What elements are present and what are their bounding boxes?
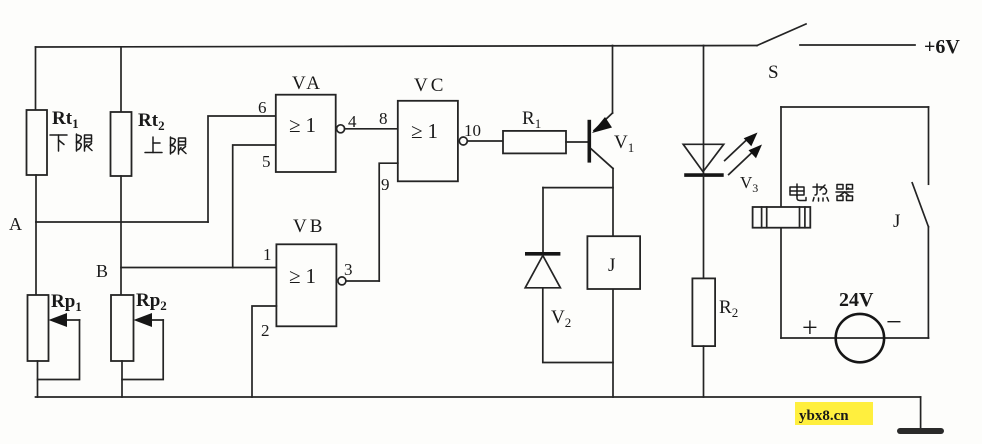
transistor V1 emitter wire from rail xyxy=(612,46,614,114)
resistor R2 xyxy=(692,278,715,346)
wire LED to R2 xyxy=(703,175,705,278)
wire top rail right section xyxy=(800,44,915,46)
heater sub-circuit box top edge xyxy=(781,106,929,108)
svg-text:3: 3 xyxy=(344,260,353,279)
wire R1 to V1 base xyxy=(566,141,587,143)
heater element end lines xyxy=(762,207,805,228)
LED V3 cathode bar xyxy=(684,173,724,177)
diode V2 cathode bar xyxy=(525,252,560,256)
label Rt2 xian2 xyxy=(171,137,187,154)
label Rt1 xia xyxy=(50,135,67,151)
svg-text:ybx8.cn: ybx8.cn xyxy=(799,408,849,424)
wire V2 bottom lead xyxy=(543,288,613,363)
heater sub-circuit left edge xyxy=(780,107,782,338)
wire VB output xyxy=(346,280,379,282)
wire node A to Rp1 xyxy=(35,222,37,295)
svg-text:9: 9 xyxy=(381,175,390,194)
wire Rp1 wiper loop xyxy=(38,320,80,380)
watermark background xyxy=(795,402,873,425)
wire to ground xyxy=(920,397,922,429)
wire V1 collector down to bottom rail xyxy=(612,169,614,398)
gate VC output bubble xyxy=(459,137,467,145)
heater element body xyxy=(753,207,811,228)
wire Rt2 branch from rail xyxy=(120,47,122,112)
label heater (re) xyxy=(813,184,829,201)
wire node B horizontal xyxy=(121,267,276,269)
transistor V1 emitter arrowhead xyxy=(592,117,612,133)
gate VA output bubble xyxy=(337,125,345,133)
svg-text:VC: VC xyxy=(414,75,446,96)
wire left branch upper xyxy=(35,47,37,110)
switch S blade xyxy=(757,24,806,46)
wire VA pin5 from node B xyxy=(233,145,276,268)
LED V3 triangle xyxy=(683,144,724,171)
ground xyxy=(900,428,941,434)
relay coil J xyxy=(587,236,640,289)
resistor Rt1 xyxy=(27,110,48,175)
svg-text:J: J xyxy=(893,211,900,232)
diode V2 triangle xyxy=(525,256,560,288)
label Rt1 xian xyxy=(77,134,93,151)
wire VA to VC xyxy=(345,128,398,130)
svg-text:VB: VB xyxy=(293,216,325,237)
LED V3 light arrow 2 xyxy=(729,145,762,175)
svg-text:S: S xyxy=(768,62,779,83)
svg-text:A: A xyxy=(9,214,22,234)
gate VC xyxy=(398,101,458,182)
label heater (dian) xyxy=(790,184,806,201)
svg-text:Rp2: Rp2 xyxy=(136,290,167,313)
transistor V1 collector diagonal xyxy=(591,149,613,169)
gate VB output bubble xyxy=(338,277,346,285)
resistor Rt2 xyxy=(111,112,132,176)
svg-text:6: 6 xyxy=(258,98,267,117)
svg-text:1: 1 xyxy=(263,245,272,264)
label heater (qi) xyxy=(836,185,853,201)
svg-text:Rt1: Rt1 xyxy=(52,108,79,131)
svg-text:Rp1: Rp1 xyxy=(51,291,82,314)
svg-text:V3: V3 xyxy=(740,173,758,195)
wire V2 branch top xyxy=(543,187,613,189)
wire Rp1 to bottom rail xyxy=(37,361,39,397)
wire Rp2 wiper loop xyxy=(122,320,163,380)
wire VA pin6 from node A xyxy=(208,116,276,222)
wire VB pin2 from bottom rail xyxy=(252,306,276,397)
potentiometer Rp1 xyxy=(28,295,49,361)
gate VB xyxy=(276,244,336,326)
wire VC pin9 from VB output xyxy=(379,163,398,281)
wire top rail left section xyxy=(36,46,758,48)
transistor V1 emitter diagonal xyxy=(594,113,613,131)
Rp1 wiper arrow xyxy=(49,313,80,327)
svg-text:R2: R2 xyxy=(719,297,738,320)
svg-text:10: 10 xyxy=(464,121,481,140)
heater sub-circuit bottom edge xyxy=(781,337,929,339)
wire LED branch from rail xyxy=(703,46,705,176)
wire VC output to R1 xyxy=(467,140,503,142)
LED V3 light arrow 1 xyxy=(725,133,758,161)
wire Rp2 to bottom rail xyxy=(121,361,123,397)
wire R2 to bottom rail xyxy=(703,346,705,397)
svg-text:R1: R1 xyxy=(522,108,541,131)
wire Rt2 to node B and Rp2 xyxy=(120,176,122,295)
transistor V1 base bar xyxy=(587,120,591,163)
gate VA xyxy=(276,95,336,172)
svg-text:8: 8 xyxy=(379,109,388,128)
wire V2 anode lead xyxy=(542,188,544,254)
battery 24V circle xyxy=(836,314,884,362)
bottom rail xyxy=(36,396,921,398)
svg-text:V2: V2 xyxy=(551,307,571,330)
svg-text:+6V: +6V xyxy=(924,36,960,58)
relay contact J blade xyxy=(912,183,928,227)
svg-text:V1: V1 xyxy=(614,132,634,155)
svg-text:+: + xyxy=(802,313,818,344)
wire Rt1 to node A xyxy=(35,175,37,222)
svg-text:5: 5 xyxy=(262,152,271,171)
heater sub-circuit right edge upper xyxy=(928,107,930,184)
svg-text:2: 2 xyxy=(261,321,270,340)
svg-text:−: − xyxy=(886,307,902,338)
wire node A horizontal xyxy=(36,221,208,223)
label Rt2 shang xyxy=(145,137,162,153)
svg-text:Rt2: Rt2 xyxy=(138,110,165,133)
resistor R1 xyxy=(503,131,566,154)
svg-text:J: J xyxy=(608,255,615,276)
potentiometer Rp2 xyxy=(111,295,134,361)
heater sub-circuit right edge lower xyxy=(927,227,929,338)
svg-text:24V: 24V xyxy=(839,289,874,311)
svg-text:VA: VA xyxy=(292,73,323,94)
svg-text:B: B xyxy=(96,261,108,281)
Rp2 wiper arrow xyxy=(134,313,164,327)
